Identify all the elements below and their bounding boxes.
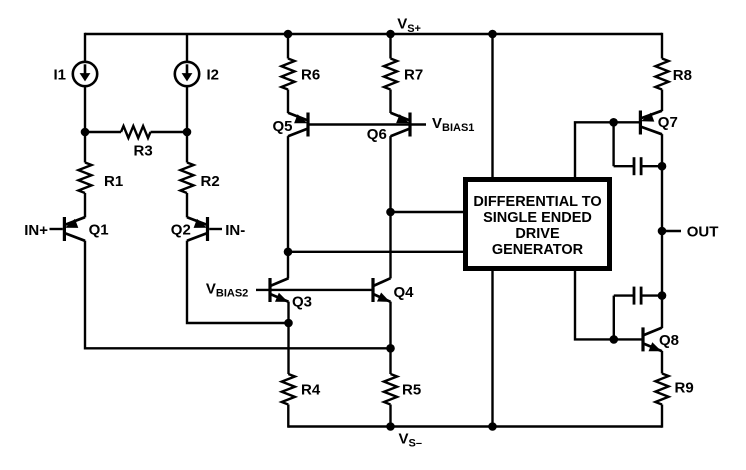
wire R9 to bottom rail corner — [661, 405, 663, 428]
resistor R3 — [85, 131, 121, 133]
wire Q3 emitter down to R4 — [287, 302, 289, 374]
svg-text:GENERATOR: GENERATOR — [492, 242, 584, 258]
wire Q8 emitter to R9 — [661, 351, 663, 374]
transistor Q4 NPN — [371, 278, 374, 302]
transistor Q1 PNP input — [63, 217, 66, 241]
wire left branch from rail to I1 — [84, 33, 86, 62]
wire generator box feed from VS+ rail — [491, 34, 493, 178]
wire V_S+ top supply rail — [85, 33, 662, 35]
node junction VS+ rail to generator — [488, 30, 497, 39]
svg-text:DIFFERENTIAL TO: DIFFERENTIAL TO — [473, 194, 601, 210]
svg-text:R1: R1 — [104, 173, 123, 190]
svg-text:R2: R2 — [201, 173, 220, 190]
svg-text:SINGLE ENDED: SINGLE ENDED — [483, 210, 592, 226]
svg-text:I2: I2 — [207, 66, 220, 83]
resistor R7 — [389, 34, 391, 59]
svg-text:Q4: Q4 — [394, 284, 415, 301]
wire generator bottom to VS- rail — [491, 270, 493, 427]
wire OUT down to Q8 collector — [661, 231, 663, 328]
svg-text:R5: R5 — [402, 382, 421, 399]
svg-text:Q6: Q6 — [367, 126, 387, 143]
svg-text:Q5: Q5 — [273, 118, 293, 135]
node junction Q6/Q4 collectors to generator input — [386, 208, 395, 217]
capacitor C2 Q8 base-collector — [613, 296, 615, 340]
node junction Q1 collector / Q4 emitter — [386, 344, 395, 353]
wire V_S- bottom supply rail — [288, 425, 662, 427]
svg-text:OUT: OUT — [687, 223, 719, 240]
svg-text:IN-: IN- — [225, 222, 245, 239]
wire R4 to bottom rail corner — [287, 405, 289, 428]
svg-text:R4: R4 — [301, 382, 321, 399]
current source I2 — [175, 62, 199, 86]
svg-text:Q8: Q8 — [659, 332, 679, 349]
wire R7 to Q6 emitter — [389, 90, 391, 114]
wire Q6 collector down to Q4 collector — [389, 136, 391, 278]
resistor R1 — [84, 132, 86, 163]
svg-text:I1: I1 — [54, 66, 67, 83]
wire I2 branch from rail — [186, 34, 188, 62]
wire Q2 collector down and right to Q3 emitter node — [187, 241, 289, 323]
resistor R5 — [384, 374, 397, 405]
svg-text:R3: R3 — [134, 143, 153, 160]
wire Q5 collector down to Q3 collector — [287, 136, 289, 278]
node junction OUT — [658, 227, 667, 236]
resistor R4 — [282, 374, 295, 405]
wire Q2 base stub to IN- — [209, 228, 222, 230]
resistor R8 — [655, 59, 668, 90]
wire base node to Q8 — [614, 338, 642, 340]
svg-text:Q2: Q2 — [171, 222, 191, 239]
node junction I1/R1/R3 — [81, 128, 90, 137]
node junction C1 to Q7 collector line — [658, 162, 667, 171]
generator box right top wire to Q7 base — [575, 122, 614, 178]
transistor Q3 NPN — [268, 278, 271, 302]
node junction Q7 base / compensation cap C1 — [609, 118, 618, 127]
wire R2 to Q2 emitter — [186, 193, 188, 217]
transistor Q6 PNP mirror — [408, 113, 411, 137]
transistor Q2 PNP input — [206, 217, 209, 241]
box DIFFERENTIAL TO SINGLE ENDED DRIVE GENERATOR — [466, 180, 610, 269]
node junction I2/R2/R3 — [183, 128, 192, 137]
resistor R6 — [287, 34, 289, 59]
wire I1 to node R1 top — [84, 86, 86, 133]
node junction generator to VS- rail — [488, 422, 497, 431]
svg-text:R9: R9 — [675, 380, 694, 397]
svg-text:R7: R7 — [404, 67, 423, 84]
wire node to generator lower-left input — [288, 251, 463, 253]
resistor R2 — [186, 132, 188, 163]
svg-text:Q1: Q1 — [89, 222, 109, 239]
generator box right bottom wire to Q8 base — [575, 270, 614, 339]
wire VBIAS2 stub and Q3-Q4 base wire — [256, 289, 373, 291]
capacitor C1 Q7 base-collector — [612, 122, 614, 166]
wire R6 to Q5 emitter — [287, 90, 289, 114]
wire OUT stub — [662, 230, 681, 232]
node junction Q2 collector / Q3 emitter — [284, 319, 293, 328]
node junction R5 to V_S- rail — [386, 422, 395, 431]
node junction rail to R6 — [284, 30, 293, 39]
svg-text:Q7: Q7 — [658, 114, 678, 131]
resistor R9 — [655, 374, 668, 405]
wire node to generator upper-left input — [391, 211, 464, 213]
node junction Q5/Q3 collectors to generator input — [284, 248, 293, 257]
wire I2 to node R2 top — [186, 86, 188, 133]
transistor Q5 PNP mirror — [306, 113, 309, 137]
wire Q1 collector down and right to Q4 emitter node — [85, 241, 391, 349]
svg-text:R6: R6 — [301, 67, 320, 84]
node junction C2 to Q8 collector line — [658, 291, 667, 300]
node junction rail to R7 at VS+ — [386, 30, 395, 39]
wire rail corner down to R8 — [661, 33, 663, 59]
current source I1 — [73, 62, 97, 86]
wire IN+ stub to Q1 base — [50, 228, 63, 230]
wire Q4 emitter down to R5 — [389, 302, 391, 374]
transistor Q8 NPN — [641, 327, 644, 351]
wire Q7 collector down to OUT — [661, 134, 663, 231]
wire R8 to Q7 emitter — [661, 90, 663, 112]
svg-text:Q3: Q3 — [292, 294, 312, 311]
wire R1 to Q1 emitter — [84, 193, 86, 217]
svg-text:R8: R8 — [673, 67, 692, 84]
wire base node to Q7 — [614, 121, 639, 123]
wire Q5 base to Q6 base to VBIAS1 — [310, 123, 427, 125]
wire R5 to bottom rail — [389, 405, 391, 427]
svg-text:DRIVE: DRIVE — [515, 226, 560, 242]
svg-text:IN+: IN+ — [24, 222, 48, 239]
transistor Q7 PNP — [639, 111, 642, 135]
node junction Q8 base / compensation cap C2 — [610, 335, 619, 344]
